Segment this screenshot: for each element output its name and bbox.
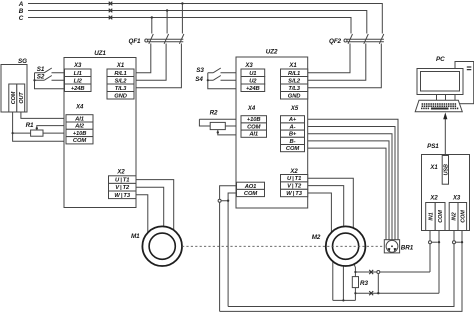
svg-text:AI2: AI2 <box>74 124 85 130</box>
svg-text:LI2: LI2 <box>74 78 83 84</box>
svg-text:COM: COM <box>286 146 299 152</box>
svg-text:R/L1: R/L1 <box>114 71 126 77</box>
svg-text:PS1: PS1 <box>427 143 439 150</box>
svg-text:R3: R3 <box>360 280 368 287</box>
svg-text:T/L3: T/L3 <box>115 86 127 92</box>
svg-text:S1: S1 <box>37 66 45 73</box>
svg-text:COM: COM <box>460 210 466 223</box>
svg-text:UZ2: UZ2 <box>266 48 278 55</box>
svg-text:C: C <box>19 15 24 22</box>
svg-text:S4: S4 <box>195 76 203 83</box>
svg-text:X4: X4 <box>247 106 256 112</box>
svg-text:COM: COM <box>244 191 257 197</box>
svg-text:X3: X3 <box>73 63 82 69</box>
svg-text:AI1: AI1 <box>74 116 84 122</box>
svg-text:X4: X4 <box>75 104 84 110</box>
svg-text:B+: B+ <box>289 132 297 138</box>
svg-text:M1: M1 <box>131 233 140 240</box>
svg-text:COM: COM <box>73 138 86 144</box>
svg-text:PC: PC <box>436 56 445 63</box>
svg-text:V | T2: V | T2 <box>115 185 130 191</box>
svg-text:X2: X2 <box>289 169 298 175</box>
svg-text:S/L2: S/L2 <box>115 78 128 84</box>
svg-text:OUT: OUT <box>19 92 25 104</box>
svg-text:LI1: LI1 <box>74 71 82 77</box>
svg-text:BR1: BR1 <box>401 245 414 252</box>
svg-text:A+: A+ <box>288 117 297 123</box>
svg-text:A-: A- <box>289 124 296 130</box>
svg-text:+10B: +10B <box>73 131 87 137</box>
svg-text:B-: B- <box>290 139 296 145</box>
svg-text:U | T1: U | T1 <box>287 176 301 182</box>
svg-text:U2: U2 <box>249 78 257 84</box>
svg-text:GND: GND <box>114 93 127 99</box>
svg-text:U | T1: U | T1 <box>115 178 129 184</box>
svg-text:X5: X5 <box>290 106 299 112</box>
svg-text:B: B <box>19 8 24 15</box>
svg-text:W | T3: W | T3 <box>114 193 130 199</box>
svg-text:QF1: QF1 <box>129 38 142 45</box>
svg-text:W | T3: W | T3 <box>286 191 302 197</box>
svg-text:SG: SG <box>18 58 27 65</box>
svg-text:R2: R2 <box>210 109 218 116</box>
svg-text:X3: X3 <box>244 63 253 69</box>
svg-text:S2: S2 <box>37 73 45 80</box>
svg-text:M2: M2 <box>312 234 321 241</box>
svg-text:X2: X2 <box>429 196 438 202</box>
svg-text:V | T2: V | T2 <box>287 184 302 190</box>
svg-text:+24B: +24B <box>246 86 260 92</box>
svg-text:COM: COM <box>438 210 444 223</box>
svg-text:IN2: IN2 <box>452 212 458 220</box>
svg-text:S/L2: S/L2 <box>288 78 301 84</box>
svg-text:X2: X2 <box>116 170 125 176</box>
svg-text:QF2: QF2 <box>329 38 342 45</box>
svg-text:T/L3: T/L3 <box>288 86 300 92</box>
svg-text:COM: COM <box>247 124 260 130</box>
svg-text:U1: U1 <box>249 71 256 77</box>
svg-text:COM: COM <box>11 91 17 104</box>
svg-text:+10B: +10B <box>247 117 261 123</box>
svg-text:X1: X1 <box>288 63 297 69</box>
svg-text:A: A <box>18 1 24 8</box>
svg-text:GND: GND <box>288 93 301 99</box>
svg-text:AO1: AO1 <box>244 184 257 190</box>
svg-text:X3: X3 <box>452 196 461 202</box>
svg-text:R1: R1 <box>26 122 34 129</box>
svg-text:UZ1: UZ1 <box>94 50 106 57</box>
svg-text:+24B: +24B <box>71 86 85 92</box>
svg-text:AI1: AI1 <box>248 132 258 138</box>
svg-text:X1: X1 <box>429 165 438 171</box>
svg-text:IN1: IN1 <box>429 212 435 220</box>
svg-text:USB: USB <box>443 164 449 175</box>
svg-text:X1: X1 <box>116 63 125 69</box>
svg-text:S3: S3 <box>196 67 204 74</box>
svg-text:R/L1: R/L1 <box>288 71 300 77</box>
